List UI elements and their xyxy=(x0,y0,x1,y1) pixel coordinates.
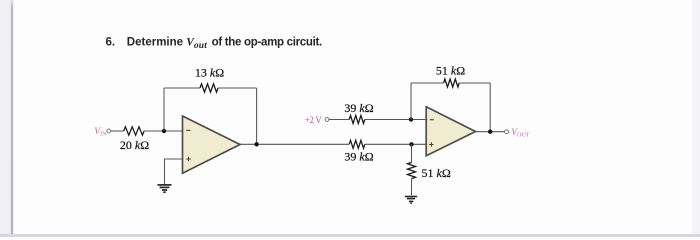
node E (U2 output) xyxy=(488,130,492,134)
wire +2V to R 39k top xyxy=(329,119,350,121)
svg-text:13 kΩ: 13 kΩ xyxy=(195,66,224,80)
op-amp U1 noninverting pin + xyxy=(186,157,191,162)
resistor 13 kΩ xyxy=(200,84,218,92)
svg-text:VIN: VIN xyxy=(94,127,107,137)
resistor 39 kΩ bottom xyxy=(349,140,365,148)
svg-text:6.DetermineVoutof the op-amp c: 6.DetermineVoutof the op-amp circuit. xyxy=(106,37,323,52)
op-amp U2 inverting pin - xyxy=(430,119,434,121)
svg-text:20 kΩ: 20 kΩ xyxy=(120,138,149,152)
svg-text:VOUT: VOUT xyxy=(511,128,529,138)
wire feedback2 top right xyxy=(459,82,490,84)
op-amp U2 xyxy=(426,107,475,156)
wire Vin to R 20k xyxy=(111,130,124,132)
node C (39k / 51k feedback junction) xyxy=(409,117,413,121)
ground (U1 noninverting) xyxy=(158,185,172,192)
svg-text:39 kΩ: 39 kΩ xyxy=(344,150,373,164)
ground (below 51 kΩ) xyxy=(405,197,417,204)
wire R 20k to op-amp U1 inverting input xyxy=(144,130,182,132)
wire R 39k top to U2 inverting input xyxy=(365,119,426,121)
wire feedback2 top left xyxy=(411,82,444,84)
wire feedback right vertical xyxy=(256,88,258,144)
wire feedback top right xyxy=(218,87,257,89)
wire R 39k bottom to U2 noninverting input xyxy=(365,143,426,145)
wire U1 output xyxy=(240,143,349,145)
wire feedback top left xyxy=(164,87,200,89)
resistor 51 kΩ to ground (vertical) xyxy=(408,162,416,178)
terminal Vout circle xyxy=(505,130,509,134)
node D (39k / 51k ground junction) xyxy=(409,142,413,146)
svg-text:51 kΩ: 51 kΩ xyxy=(422,166,451,180)
terminal +2V circle xyxy=(325,118,329,122)
node B (U1 output) xyxy=(254,142,258,146)
resistor 39 kΩ top xyxy=(349,116,365,124)
wire U2 output xyxy=(476,131,505,133)
node A (junction 20k / 13k feedback) xyxy=(162,129,166,133)
resistor 51 kΩ feedback xyxy=(444,79,460,87)
wire U1 plus input stub xyxy=(165,159,183,184)
terminal Vin circle xyxy=(107,129,111,133)
wire feedback2 left vertical xyxy=(410,83,412,120)
op-amp U2 noninverting pin + xyxy=(429,142,433,146)
wire feedback2 right vertical xyxy=(489,83,491,132)
op-amp U1 xyxy=(183,116,241,173)
svg-text:+2 V: +2 V xyxy=(305,115,322,125)
wire R 51k to ground xyxy=(411,179,413,196)
resistor 20 kΩ xyxy=(124,127,144,135)
wire node D down to R 51k xyxy=(411,144,413,162)
wire feedback left vertical xyxy=(163,88,165,131)
op-amp U1 inverting pin - xyxy=(186,129,190,131)
svg-text:51 kΩ: 51 kΩ xyxy=(436,64,465,78)
svg-text:39 kΩ: 39 kΩ xyxy=(344,101,373,115)
